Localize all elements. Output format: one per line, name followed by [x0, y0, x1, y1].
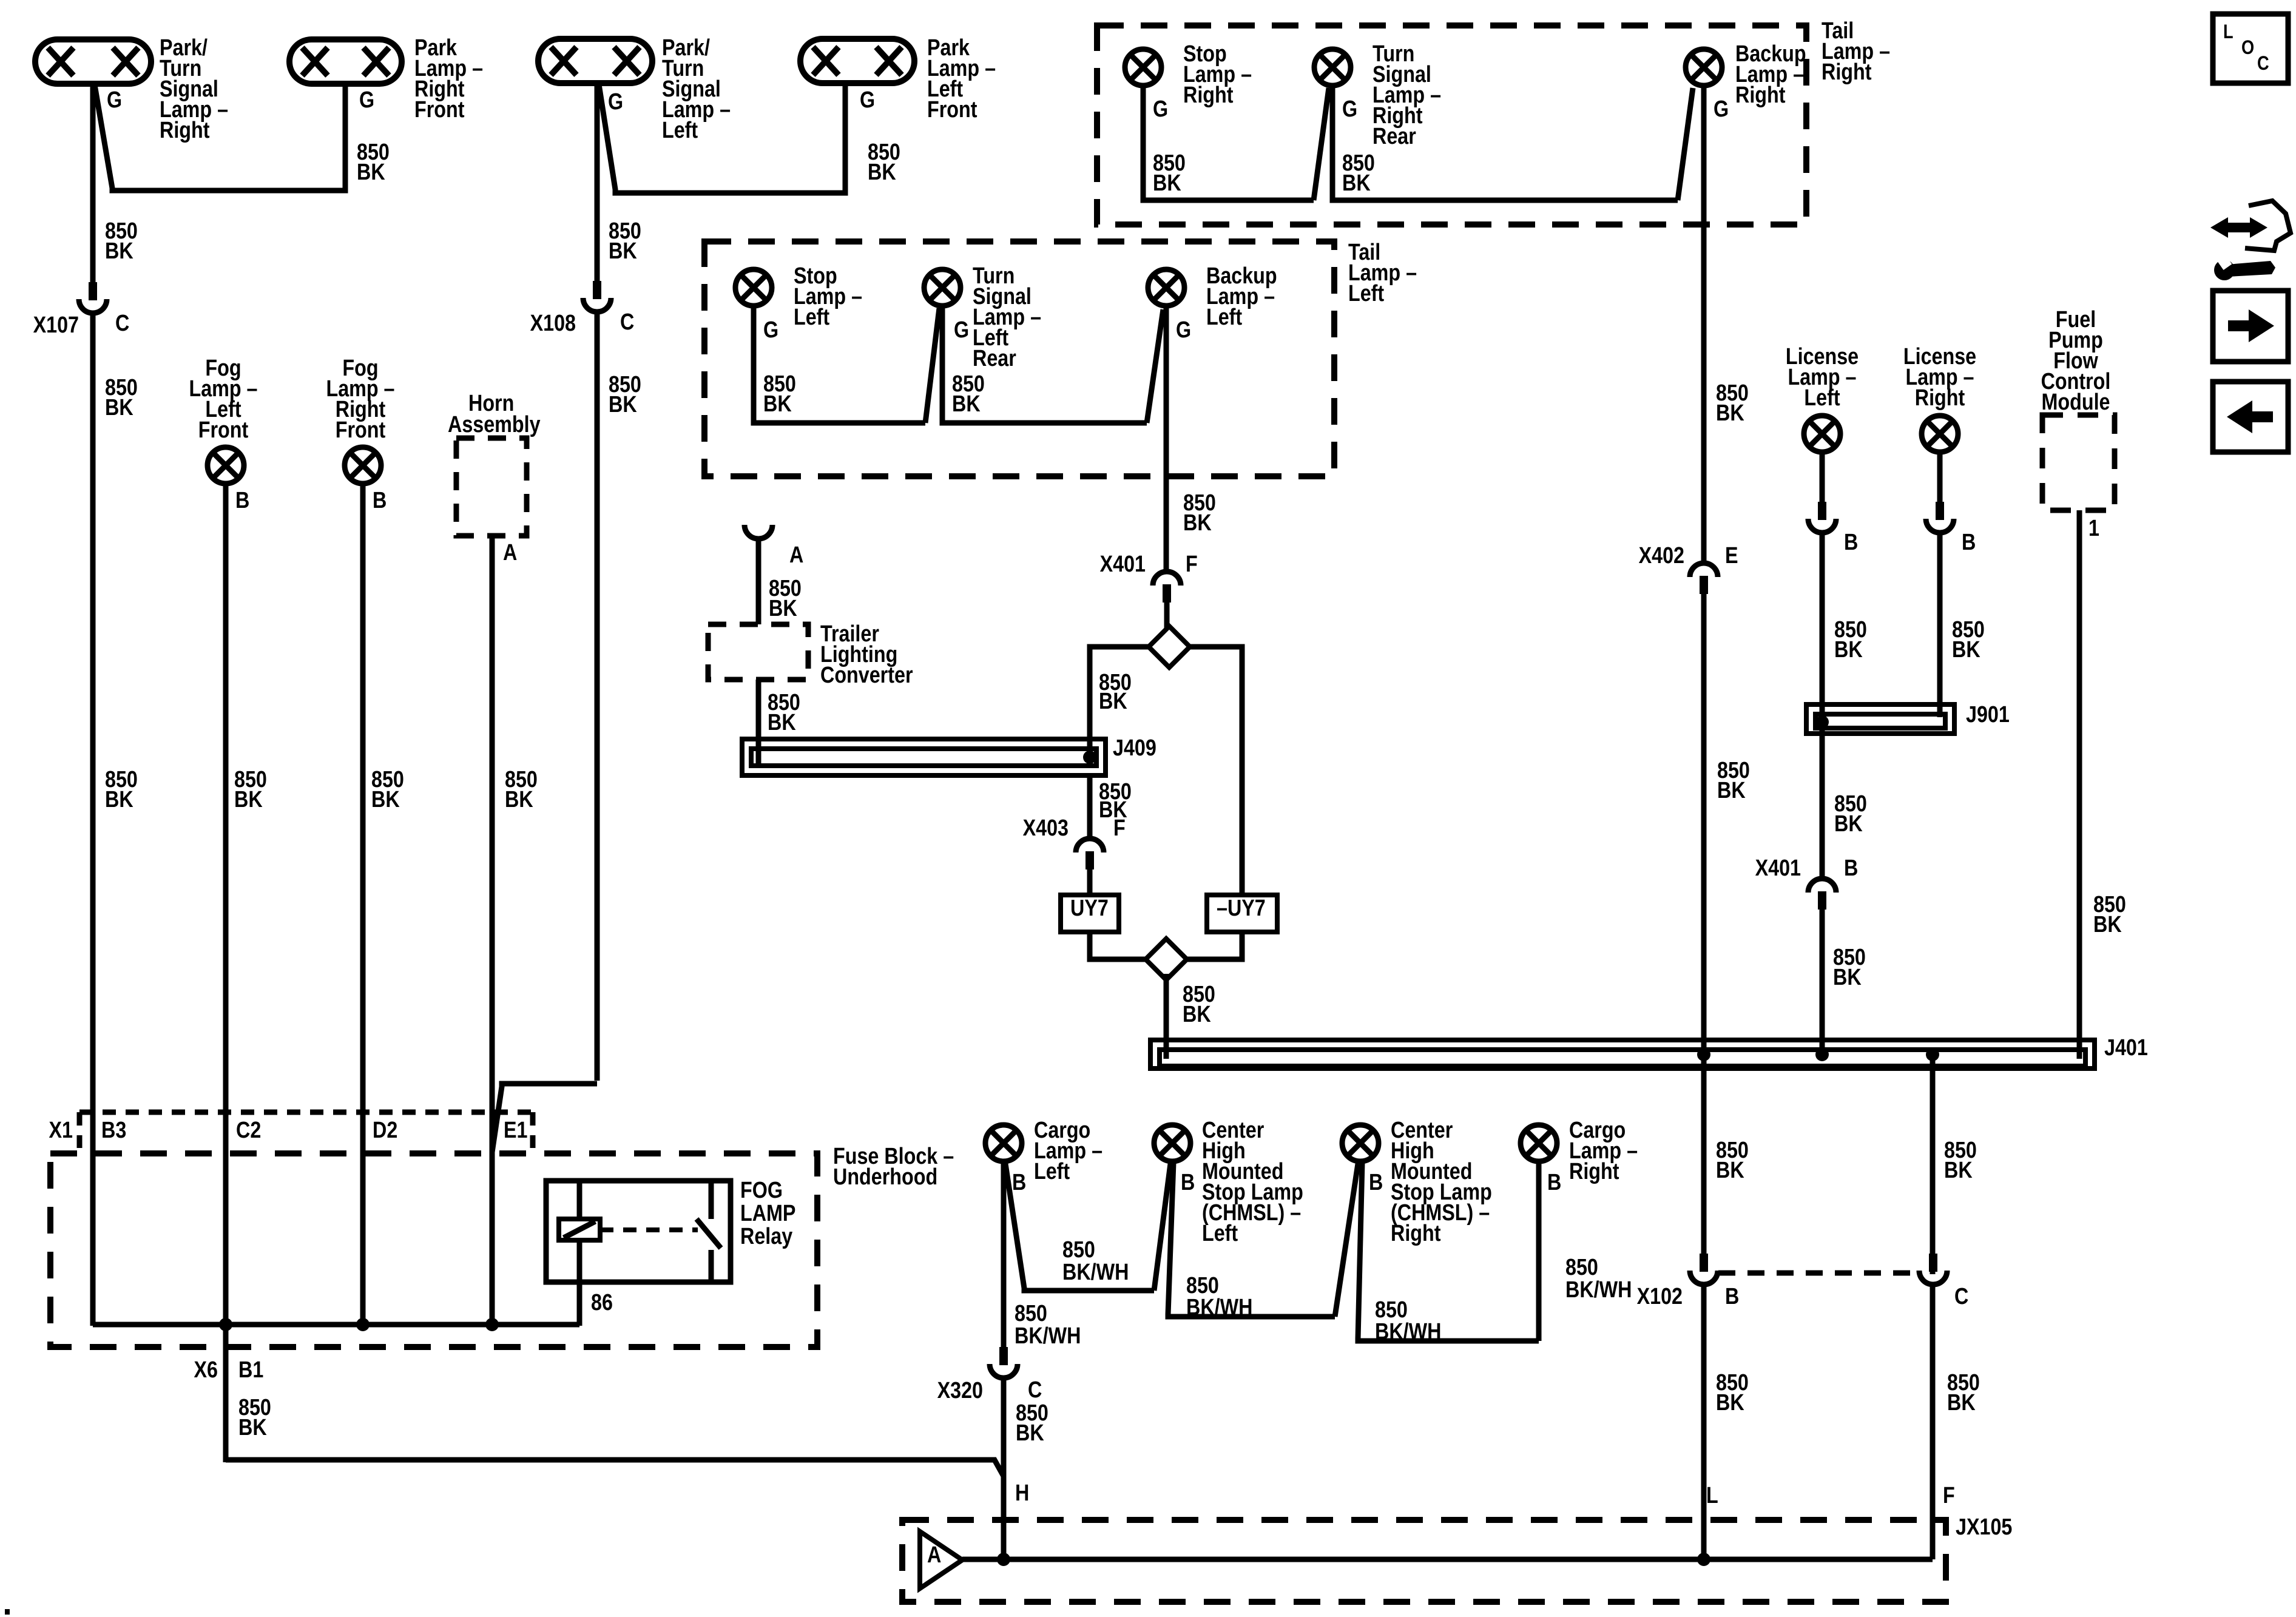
- svg-text:X107: X107: [33, 312, 79, 338]
- svg-text:X403: X403: [1023, 815, 1069, 841]
- label 850 BK (below X108): [609, 372, 641, 417]
- svg-text:Converter: Converter: [820, 663, 913, 688]
- label 850 BK (X6 B1): [238, 1395, 271, 1440]
- label License Lamp - Left: [1786, 344, 1859, 411]
- wire J409 to X403: [1087, 775, 1093, 836]
- relay pin 86 wire: [577, 1240, 582, 1326]
- wire license left to J901: [1820, 535, 1825, 752]
- wire X108 jog to E1: [492, 1084, 597, 1152]
- lamp E3 Fog Lamp - Right Front: [345, 447, 381, 484]
- relay coil: [559, 1219, 600, 1240]
- label 850 BK (below J409): [1099, 779, 1132, 823]
- label 850 BK (fog left): [234, 767, 267, 812]
- svg-text:G: G: [359, 87, 374, 113]
- label 850 BK (fog right): [371, 767, 404, 812]
- service icon wrench with arrows: [2210, 201, 2291, 280]
- relay coil stub: [577, 1181, 582, 1219]
- wire cargo left branch: [1005, 1164, 1154, 1291]
- label Stop Lamp - Left: [794, 263, 862, 330]
- svg-text:C: C: [2257, 53, 2269, 75]
- pin F of X403: [1113, 815, 1126, 841]
- junction dot J401 license: [1815, 1048, 1829, 1061]
- label 850 BK (horn): [505, 767, 538, 812]
- wire chain1 diagonal up: [1154, 1164, 1170, 1291]
- svg-text:X102: X102: [1637, 1284, 1683, 1309]
- svg-text:Left: Left: [1034, 1159, 1070, 1184]
- label Horn Assembly: [448, 391, 541, 437]
- splice J401 bus: [1150, 1040, 2095, 1068]
- svg-text:A: A: [789, 542, 803, 568]
- svg-text:–UY7: –UY7: [1217, 896, 1266, 921]
- pin G of Turn Signal Left: [954, 317, 969, 343]
- svg-text:BK: BK: [1947, 1390, 1976, 1416]
- wire J901 to X401B: [1820, 734, 1825, 877]
- lamp License Lamp - Right: [1922, 416, 1958, 452]
- svg-text:B: B: [1012, 1170, 1026, 1195]
- lamp E2 Fog Lamp - Left Front: [208, 447, 244, 484]
- label Turn Signal Lamp - Right Rear: [1373, 41, 1441, 149]
- lamp Backup Lamp - Right: [1686, 49, 1722, 86]
- label FOG LAMP Relay: [740, 1178, 795, 1249]
- svg-text:G: G: [954, 317, 969, 343]
- pin B of cargo left: [1012, 1170, 1026, 1195]
- svg-text:B: B: [1844, 856, 1858, 881]
- wire stop left ground: [754, 307, 925, 423]
- svg-text:Rear: Rear: [973, 346, 1016, 371]
- svg-text:Front: Front: [414, 97, 465, 123]
- wire X6 to X320 junction: [226, 1460, 1004, 1476]
- pin 86 of relay: [591, 1290, 613, 1315]
- label 850 BK (v1 lower): [105, 767, 138, 812]
- svg-text:G: G: [608, 89, 623, 115]
- wire diamond lower to J401: [1164, 974, 1169, 1059]
- ground distribution JX105 box: [902, 1520, 1946, 1602]
- connector X402 pin E: [1690, 563, 1718, 594]
- svg-text:850: 850: [1062, 1237, 1095, 1263]
- label CHMSL Left: [1202, 1118, 1303, 1246]
- svg-text:G: G: [1342, 96, 1357, 122]
- svg-text:850: 850: [1565, 1255, 1598, 1280]
- svg-text:850: 850: [1015, 1301, 1047, 1326]
- wire X402 to J401 to X102: [1701, 594, 1707, 1254]
- label Fog Lamp - Right Front: [326, 356, 394, 443]
- junction dot JX105 H: [997, 1553, 1010, 1566]
- svg-text:Relay: Relay: [740, 1224, 793, 1249]
- junction dot J401 backup right: [1697, 1048, 1710, 1061]
- fuse block ground bus wire: [93, 1322, 579, 1328]
- junction dot JX105 L: [1697, 1553, 1710, 1566]
- pin G of Park Lamp Right Front: [359, 87, 374, 113]
- svg-text:Right: Right: [1391, 1221, 1441, 1246]
- label 850 BK (below X102): [1716, 1370, 1749, 1416]
- label Fuse Block - Underhood: [833, 1144, 954, 1190]
- svg-text:BK: BK: [609, 238, 637, 264]
- splice J901 bus: [1806, 704, 1954, 734]
- label 850 BK (backup right upper): [1716, 380, 1749, 426]
- wire license left to connector: [1820, 453, 1825, 504]
- wire cargo right ground: [1536, 1163, 1542, 1341]
- wire fuel pump module to J401: [2077, 510, 2082, 1059]
- wire fog left ground: [223, 485, 229, 1326]
- svg-text:L: L: [1706, 1483, 1718, 1508]
- wire X401B to J401: [1820, 910, 1825, 1059]
- pin B of license left: [1844, 530, 1858, 555]
- wire CHMSL right down: [1358, 1163, 1539, 1341]
- junction dot J901: [1815, 715, 1829, 729]
- svg-text:B: B: [235, 488, 249, 513]
- wire turn left ground: [942, 307, 1147, 423]
- label 850 BK (J401 to X102): [1716, 1138, 1749, 1183]
- svg-text:BK: BK: [2093, 912, 2122, 937]
- relay switch blade: [697, 1219, 721, 1248]
- svg-text:BK: BK: [1342, 170, 1371, 196]
- pin E of X402: [1725, 543, 1738, 569]
- wire X401F to diamond: [1164, 603, 1170, 631]
- wire stop right ground: [1143, 87, 1314, 200]
- wire chain2 diagonal up: [1335, 1164, 1358, 1317]
- option box -UY7: [1207, 895, 1277, 932]
- pin B of CHMSL right: [1369, 1170, 1383, 1195]
- svg-text:D2: D2: [373, 1118, 397, 1143]
- svg-text:Right: Right: [1569, 1159, 1619, 1184]
- connector X320 pin C: [990, 1347, 1018, 1378]
- lamp License Lamp - Left: [1804, 416, 1840, 452]
- lamp Turn Signal Lamp - Right Rear: [1314, 49, 1351, 86]
- wire stop-to-turn diagonal right box: [1314, 88, 1329, 200]
- svg-text:Left: Left: [1348, 281, 1384, 306]
- wire X320 to JX105: [1001, 1380, 1007, 1559]
- svg-text:BK: BK: [868, 160, 896, 185]
- pin L of JX105: [1706, 1483, 1718, 1508]
- pin B of Fog Lamp Right: [373, 488, 387, 513]
- pin G of Backup Lamp Right: [1714, 96, 1729, 122]
- svg-text:BK: BK: [1834, 637, 1863, 663]
- svg-text:X320: X320: [937, 1378, 983, 1403]
- svg-text:BK: BK: [1716, 400, 1744, 426]
- label Tail Lamp - Left: [1348, 240, 1417, 306]
- junction dot fog left bus: [219, 1318, 232, 1331]
- horn assembly box: [456, 438, 527, 536]
- svg-text:X108: X108: [530, 311, 576, 336]
- label 850 BK (above X107): [105, 218, 138, 264]
- wire X6 B1 down: [223, 1326, 229, 1462]
- svg-text:C: C: [1954, 1284, 1968, 1309]
- wire J401 to X102 right half: [1930, 1059, 1936, 1274]
- svg-text:Right: Right: [160, 118, 210, 143]
- svg-text:G: G: [763, 317, 778, 343]
- wire license right to connector: [1937, 453, 1943, 504]
- svg-text:C2: C2: [236, 1118, 261, 1143]
- lamp Turn Signal Lamp - Left Rear: [924, 269, 961, 306]
- svg-text:X401: X401: [1100, 552, 1146, 577]
- wire 850 BK lamp1 down: [90, 83, 96, 282]
- svg-text:J409: J409: [1113, 735, 1156, 761]
- svg-text:BK: BK: [1153, 170, 1181, 196]
- svg-text:G: G: [1153, 96, 1168, 122]
- connector X401 pin F: [1153, 572, 1181, 603]
- label 850 BK/WH (cargo left): [1015, 1301, 1081, 1349]
- wire lamp3 to lamp4 ground: [599, 83, 845, 193]
- svg-text:B1: B1: [238, 1357, 263, 1383]
- label J401: [2104, 1035, 2148, 1061]
- svg-text:G: G: [107, 87, 122, 113]
- wire lamp3 down: [595, 82, 600, 282]
- svg-text:BK: BK: [609, 392, 637, 417]
- svg-text:B3: B3: [101, 1118, 126, 1143]
- label X6: [194, 1357, 218, 1383]
- pin G of Park/Turn Left: [608, 89, 623, 115]
- label 850 BK (lamp2 wire): [357, 140, 390, 185]
- pin G of Park Lamp Left Front: [860, 87, 875, 113]
- label 850 BK (below X107): [105, 375, 138, 420]
- fuse block underhood box: [50, 1153, 817, 1347]
- svg-text:G: G: [1714, 96, 1729, 122]
- svg-text:BK: BK: [763, 391, 792, 417]
- label X320: [937, 1378, 983, 1403]
- svg-text:Left: Left: [1804, 385, 1840, 411]
- relay switch bottom stub: [709, 1250, 714, 1282]
- pin C of X107: [115, 311, 129, 336]
- svg-text:BK: BK: [234, 787, 263, 812]
- svg-text:Underhood: Underhood: [833, 1164, 937, 1190]
- connector X107 inline: [79, 282, 107, 313]
- label 850 BK (below J901): [1834, 791, 1867, 837]
- previous page arrow box: [2213, 382, 2288, 452]
- lamp Backup Lamp - Left: [1148, 269, 1184, 306]
- svg-text:BK: BK: [1833, 965, 1862, 990]
- svg-text:X402: X402: [1639, 543, 1684, 569]
- svg-text:Rear: Rear: [1373, 124, 1416, 149]
- svg-text:BK: BK: [1944, 1158, 1973, 1183]
- svg-text:J401: J401: [2104, 1035, 2148, 1061]
- wire ground A to converter: [756, 539, 761, 624]
- wire below X108: [595, 314, 600, 1081]
- connector X102 pin B: [1690, 1254, 1718, 1284]
- svg-text:H: H: [1015, 1480, 1029, 1506]
- svg-text:C: C: [620, 309, 634, 335]
- splice diamond upper: [1149, 626, 1190, 667]
- svg-text:BK: BK: [1716, 1158, 1744, 1183]
- connector C inline right: [1919, 1254, 1947, 1284]
- svg-text:FOG: FOG: [740, 1178, 783, 1203]
- svg-text:B: B: [1369, 1170, 1383, 1195]
- svg-text:F: F: [1186, 552, 1198, 577]
- junction dot J409: [1083, 751, 1096, 764]
- label 850 BK (turn left): [952, 371, 985, 417]
- label J901: [1966, 702, 2010, 727]
- pin F of X401: [1186, 552, 1198, 577]
- label JX105: [1956, 1514, 2012, 1540]
- label J409: [1113, 735, 1156, 761]
- label 850 BK (X320): [1016, 1400, 1048, 1446]
- pin A of Horn Assembly: [503, 540, 517, 565]
- svg-text:BK: BK: [238, 1415, 267, 1440]
- label 850 BK (backup left): [1183, 490, 1216, 536]
- label 850 BK (below converter): [768, 690, 800, 735]
- svg-text:Right: Right: [1183, 83, 1234, 108]
- svg-text:A: A: [503, 540, 517, 565]
- svg-text:BK: BK: [505, 787, 533, 812]
- svg-text:BK/WH: BK/WH: [1565, 1277, 1632, 1303]
- label Park Lamp - Right Front: [414, 35, 483, 123]
- relay actuator dashed: [600, 1227, 698, 1232]
- svg-text:A: A: [927, 1542, 941, 1568]
- relay switch top stub: [709, 1181, 714, 1219]
- relay box: [546, 1181, 731, 1282]
- svg-text:JX105: JX105: [1956, 1514, 2012, 1540]
- svg-text:Left: Left: [662, 118, 698, 143]
- label Park Lamp - Left Front: [927, 35, 996, 123]
- JX105 internal bus wire: [962, 1557, 1933, 1562]
- label Fog Lamp - Left Front: [189, 356, 257, 443]
- svg-text:BK: BK: [952, 391, 981, 417]
- svg-text:BK: BK: [105, 395, 133, 420]
- svg-text:Right: Right: [1822, 59, 1872, 85]
- next page arrow box: [2213, 291, 2288, 362]
- wire backup left ground: [1164, 307, 1169, 570]
- svg-text:BK/WH: BK/WH: [1186, 1295, 1252, 1320]
- pin G of Backup Lamp Left: [1176, 317, 1191, 343]
- svg-text:LAMP: LAMP: [740, 1201, 795, 1226]
- label 850 BK (stop left): [763, 371, 796, 417]
- svg-text:Module: Module: [2042, 390, 2110, 415]
- wire horn ground 850 BK: [490, 536, 495, 1326]
- pin B of CHMSL left: [1181, 1170, 1195, 1195]
- wire diamond left branch: [1090, 647, 1149, 761]
- svg-text:B: B: [1181, 1170, 1195, 1195]
- wire fog right ground: [360, 485, 366, 1326]
- wire license right to J901: [1937, 535, 1943, 717]
- label 850 BK (J401 to C conn): [1944, 1138, 1977, 1183]
- wire diamond right branch: [1189, 647, 1242, 895]
- label Backup Lamp - Left: [1206, 263, 1277, 330]
- dashed connector link X102: [1718, 1271, 1915, 1276]
- svg-text:X6: X6: [194, 1357, 218, 1383]
- svg-text:Right: Right: [1735, 83, 1786, 108]
- lamp Cargo Lamp - Right: [1521, 1125, 1557, 1161]
- label 850 BK (above converter): [769, 576, 802, 621]
- wire turn-to-backup diagonal: [1147, 309, 1163, 423]
- label License Lamp - Right: [1903, 344, 1976, 411]
- svg-text:F: F: [1113, 815, 1126, 841]
- svg-text:BK: BK: [1834, 811, 1863, 837]
- label Stop Lamp - Right: [1183, 41, 1252, 108]
- svg-text:L: L: [2223, 21, 2234, 43]
- label 850 BK (lamp4 wire): [868, 140, 900, 185]
- svg-text:86: 86: [591, 1290, 613, 1315]
- wire turn right ground: [1332, 87, 1678, 200]
- wire turn-to-backup diagonal right box: [1678, 88, 1693, 200]
- svg-text:BK: BK: [1952, 637, 1980, 663]
- lamp E4 Park/Turn Signal Lamp - Right: [35, 39, 151, 84]
- pin C2 of X1: [236, 1118, 261, 1143]
- svg-text:Right: Right: [1915, 385, 1965, 411]
- label 850 BK (license left): [1834, 617, 1867, 663]
- pin E1 of X1: [504, 1118, 527, 1143]
- pin G of Stop Lamp Left: [763, 317, 778, 343]
- label X403: [1023, 815, 1069, 841]
- connector license left pin B: [1808, 502, 1836, 533]
- tail lamp right dashed box: [1097, 25, 1806, 224]
- lamp E5 Park Lamp - Left Front: [800, 39, 914, 83]
- pin C of right connector: [1954, 1284, 1968, 1309]
- svg-text:B: B: [1844, 530, 1858, 555]
- label X108: [530, 311, 576, 336]
- svg-text:C: C: [115, 311, 129, 336]
- pin F of JX105: [1943, 1483, 1955, 1508]
- junction dot horn bus: [485, 1318, 499, 1331]
- label CHMSL Right: [1391, 1118, 1492, 1246]
- pin H of JX105: [1015, 1480, 1029, 1506]
- label 850 BK/WH (branch1): [1062, 1237, 1129, 1285]
- pin G of Stop Lamp Right: [1153, 96, 1168, 122]
- label 850 BK (above X108): [609, 218, 641, 264]
- label 850 BK (below X401B): [1833, 945, 1866, 990]
- svg-text:UY7: UY7: [1070, 896, 1109, 921]
- svg-text:1: 1: [2088, 516, 2099, 541]
- connector X403 pin F: [1076, 839, 1104, 869]
- wire 850 BK below X107: [90, 315, 96, 1326]
- label Cargo Lamp - Right: [1569, 1118, 1638, 1184]
- tail lamp left dashed box: [704, 241, 1334, 476]
- svg-text:BK: BK: [1016, 1420, 1044, 1446]
- connector X401 pin B: [1808, 879, 1836, 910]
- label X401 (F): [1100, 552, 1146, 577]
- label X102: [1637, 1284, 1683, 1309]
- label Trailer Lighting Converter: [820, 621, 913, 688]
- label 850 BK (license right): [1952, 617, 1985, 663]
- trailer lighting converter box: [708, 624, 808, 680]
- pin D2 of X1: [373, 1118, 397, 1143]
- svg-text:BK/WH: BK/WH: [1062, 1260, 1129, 1285]
- wire stop-to-turn diagonal: [925, 308, 939, 423]
- svg-text:BK: BK: [769, 596, 797, 621]
- ground point A arc: [745, 525, 772, 539]
- lamp Cargo Lamp - Left: [985, 1125, 1022, 1161]
- svg-text:Front: Front: [927, 97, 977, 123]
- label X1: [49, 1118, 73, 1143]
- pin C of X108: [620, 309, 634, 335]
- svg-text:BK: BK: [371, 787, 400, 812]
- label Backup Lamp - Right: [1735, 41, 1806, 108]
- label 850 BK (below C conn): [1947, 1370, 1980, 1416]
- wire lamp1 to lamp2 ground: [95, 84, 345, 191]
- svg-text:Front: Front: [336, 417, 386, 443]
- splice J409 bus: [742, 739, 1106, 775]
- svg-text:BK/WH: BK/WH: [1375, 1319, 1441, 1345]
- label 850 BK (stop right): [1153, 150, 1186, 196]
- svg-text:G: G: [860, 87, 875, 113]
- svg-text:B: B: [1547, 1170, 1561, 1195]
- option box UY7: [1061, 895, 1119, 932]
- pin B of license right: [1962, 530, 1976, 555]
- label Park/Turn Signal Lamp - Right: [160, 35, 228, 143]
- svg-text:F: F: [1943, 1483, 1955, 1508]
- wire UY7 to diamond lower: [1090, 932, 1147, 959]
- pin B3 of X1: [101, 1118, 126, 1143]
- LOC reference box: [2213, 14, 2288, 83]
- svg-text:BK: BK: [1717, 778, 1746, 803]
- svg-text:BK: BK: [768, 710, 796, 735]
- label Fuel Pump Flow Control Module: [2041, 307, 2111, 415]
- label 850 BK (diamond left): [1099, 670, 1132, 714]
- svg-text:BK: BK: [1716, 1390, 1744, 1416]
- label Park/Turn Signal Lamp - Left: [662, 35, 731, 143]
- svg-text:BK/WH: BK/WH: [1015, 1323, 1081, 1349]
- pin A ground label: [789, 542, 803, 568]
- lamp E8 Park/Turn Signal Lamp - Left: [538, 39, 652, 83]
- lamp Stop Lamp - Right: [1125, 49, 1161, 86]
